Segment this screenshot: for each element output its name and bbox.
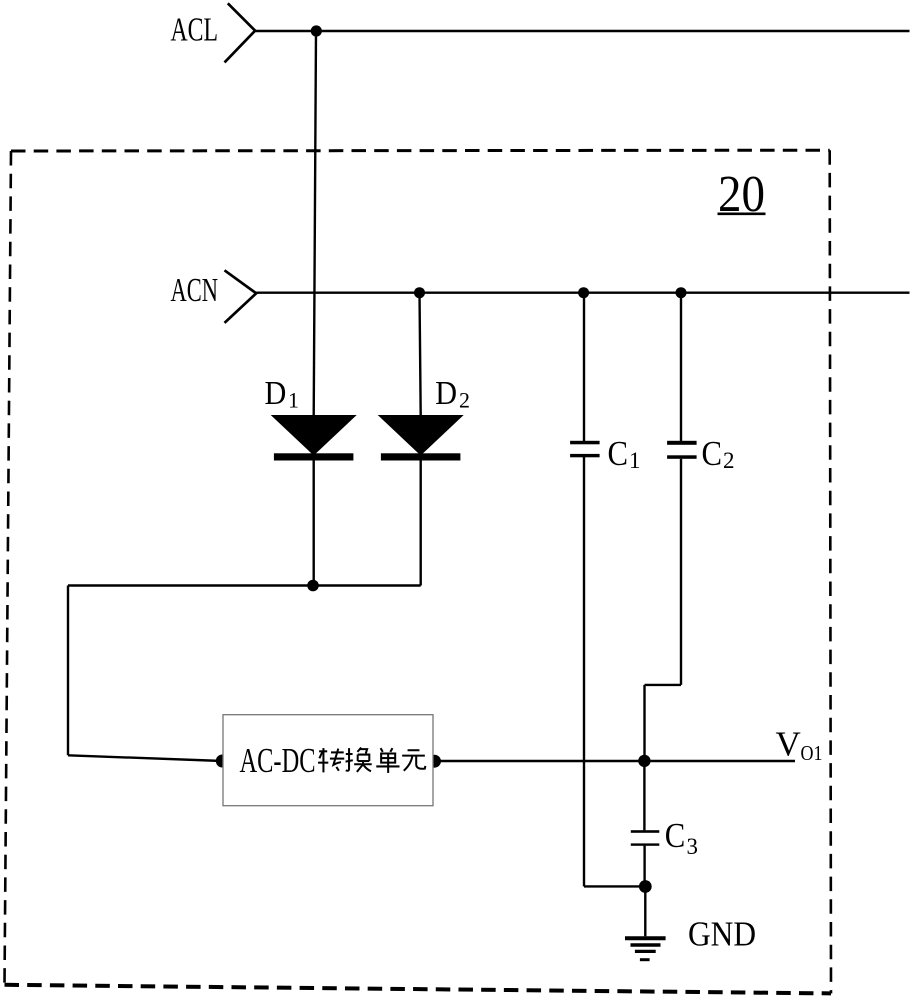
wire C1 bottom long (583, 457, 585, 886)
svg-text:C: C (702, 434, 723, 473)
svg-text:3: 3 (687, 834, 699, 859)
wire C3 to ground node (643, 846, 645, 887)
junction node ACN-C2 (676, 287, 687, 298)
junction node ACN-C1 (578, 287, 589, 298)
svg-text:C: C (665, 816, 686, 855)
svg-text:D: D (435, 375, 457, 412)
junction node VO1-C3 (638, 755, 650, 767)
wire C1 to ground node (584, 885, 645, 887)
svg-text:GND: GND (688, 914, 756, 953)
capacitor C3 plates (631, 830, 660, 846)
wire C2 bottom (680, 459, 682, 685)
wire ACN horizontal (256, 292, 909, 294)
capacitor C1 plates (570, 441, 600, 458)
wire D2 cathode down (420, 459, 422, 586)
wire ACN junction to D2 (420, 293, 421, 416)
wire left vertical (67, 586, 69, 756)
svg-text:D: D (265, 375, 287, 412)
svg-text:2: 2 (459, 388, 470, 413)
capacitor C2 plates (667, 441, 697, 459)
CJK glyph zhuan (转) (318, 748, 344, 772)
svg-text:ACN: ACN (171, 272, 219, 309)
junction node diode bottoms (307, 580, 319, 592)
junction node ACN-D2 (414, 287, 425, 298)
svg-text:C: C (608, 434, 629, 473)
wire AC-DC output to VO1 (435, 760, 796, 762)
CJK glyph huan (换) (346, 748, 372, 772)
CJK glyph yuan (元) (402, 750, 425, 771)
junction node ground (639, 880, 652, 893)
node ACL input arrow (225, 3, 256, 62)
svg-text:ACL: ACL (171, 12, 219, 49)
wire C2 jog vertical to VO1 (643, 685, 645, 761)
svg-text:1: 1 (288, 388, 299, 413)
wire C2 jog horizontal (645, 684, 682, 686)
svg-text:1: 1 (629, 448, 641, 473)
svg-text:2: 2 (723, 448, 735, 473)
junction node AC-DC input (216, 755, 229, 768)
wire C2 top (680, 293, 682, 441)
wire ACL horizontal (255, 30, 909, 32)
diode D2 (378, 415, 464, 461)
wire VO1 node to C3 (643, 761, 645, 830)
wire into AC-DC unit (68, 755, 223, 761)
wire D1 cathode down (313, 459, 315, 586)
svg-text:V: V (776, 724, 801, 763)
junction node on ACL wire (311, 25, 322, 36)
block AC-DC converter unit (223, 715, 433, 806)
wire C1 top (583, 293, 585, 441)
wire ground stem (644, 886, 646, 936)
node ACN input arrow (225, 270, 257, 323)
wire bottom of diodes horizontal (68, 584, 421, 586)
CJK glyph dan (单) (376, 748, 399, 773)
svg-text:O1: O1 (801, 741, 823, 765)
ground symbol (625, 938, 666, 960)
underline of 20 (718, 213, 766, 216)
junction node AC-DC output (428, 755, 441, 768)
diode D1 (271, 415, 357, 461)
svg-text:AC-DC: AC-DC (240, 741, 316, 780)
wire ACL vertical to D1 (314, 31, 316, 416)
dashed box 20 (5, 150, 832, 993)
